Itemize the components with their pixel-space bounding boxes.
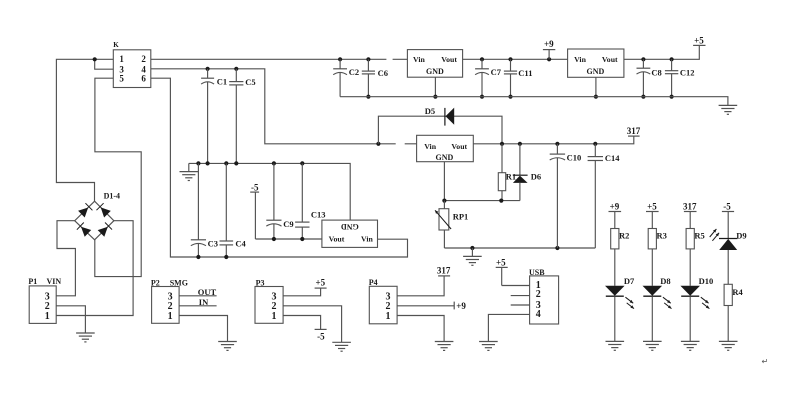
wire USB pin4 to ground [488,314,529,341]
LED D10 [680,276,713,341]
wire P4 pin2 to +9 flag [397,305,454,307]
svg-text:R4: R4 [732,287,743,297]
capacitor C9 [266,163,293,239]
svg-text:Vout: Vout [602,55,618,64]
svg-text:D8: D8 [660,276,670,286]
svg-text:+9: +9 [544,39,554,49]
svg-text:Vin: Vin [361,234,374,243]
connector P2 [151,278,188,323]
wire U1 Vout to U2 Vin (+9 rail) [463,57,568,61]
svg-text:USB: USB [529,268,545,277]
wire mid-bottom rail [444,246,595,250]
svg-text:VIN: VIN [47,277,62,286]
svg-text:↵: ↵ [762,357,769,366]
svg-text:6: 6 [141,73,146,83]
wire P3 pin1 to -5 flag [283,316,321,330]
ground P3 [332,342,351,351]
svg-text:+5: +5 [315,277,325,287]
wire P1 pin3 to bridge left (AC) [56,221,75,296]
connector P3 [255,278,283,323]
svg-text:317: 317 [627,126,641,136]
resistor R5 [686,229,705,286]
capacitor C3 [191,163,218,257]
svg-text:Vout: Vout [451,142,467,151]
diode D5 [425,106,454,126]
wire P2 pin1 to ground [179,316,227,342]
svg-text:C10: C10 [567,153,582,163]
svg-text:2: 2 [536,289,541,300]
svg-text:K: K [113,41,119,49]
connector P4 [369,278,397,324]
svg-text:1: 1 [386,311,391,322]
svg-text:5: 5 [119,73,124,83]
svg-text:Vin: Vin [574,55,587,64]
wire USB pin3 stub [511,304,530,306]
svg-text:P4: P4 [369,278,378,287]
ground D10 branch [681,341,700,350]
wire P3 pin2 to ground [283,306,342,343]
svg-text:OUT: OUT [198,287,217,297]
regulator U3 (LM317) [417,135,474,162]
power flag 317 (LED branch) [683,201,697,228]
svg-text:C3: C3 [208,238,218,248]
svg-text:+5: +5 [694,36,704,46]
svg-text:C13: C13 [311,209,326,219]
power flag +5 (USB) [496,257,508,285]
svg-text:C1: C1 [217,77,227,87]
ground mid left [180,163,199,180]
ground P4 [435,342,454,351]
wire USB pin1 to +5 [502,285,530,287]
ground P1 [76,333,95,342]
wire P3 pin3 to +5 flag [283,288,321,296]
svg-text:C9: C9 [283,219,293,229]
wire P2 pin3 OUT stub [179,287,217,297]
svg-text:C5: C5 [245,77,255,87]
svg-text:GND: GND [587,67,605,76]
svg-text:317: 317 [683,201,697,211]
svg-text:D6: D6 [531,172,541,182]
wire U1 GND pin to rail [433,77,437,99]
svg-text:1: 1 [119,54,124,64]
wire K pin6 / negative rail to U4 Vin [151,78,408,259]
ground USB [479,342,498,351]
resistor R2 [611,229,630,286]
LED D9 [710,229,747,285]
capacitor C13 [295,163,325,239]
ground D7 branch [606,341,625,350]
wire P4 pin3 to 317 flag [397,276,444,296]
power flag +9 (top) [543,39,555,59]
capacitor C1 [201,69,227,164]
ground top right [719,105,738,114]
svg-text:D7: D7 [624,276,635,286]
wire K pin 5 to bridge AC bottom [95,78,141,276]
svg-text:GND: GND [436,153,454,162]
capacitor C2 [333,59,359,96]
capacitor C11 [504,59,533,98]
svg-text:P3: P3 [256,278,265,287]
resistor R4 [724,284,743,341]
wire U3 Vout to 317 flag [473,136,634,146]
capacitor C7 [475,59,502,98]
svg-text:Vout: Vout [329,234,345,243]
wire P2 pin2 IN stub [179,297,217,307]
svg-text:317: 317 [437,265,451,275]
connector P1 [28,277,61,323]
svg-text:+5: +5 [647,201,657,211]
svg-text:-5: -5 [251,182,259,192]
svg-text:4: 4 [536,309,541,320]
potentiometer RP1 [435,201,468,248]
svg-text:2: 2 [141,54,146,64]
wire K pin2 to U1 Vin (+DC rail) [151,57,408,61]
wire K pins 1,3 to bridge AC top [56,57,113,201]
power flag +5 (LED branch) [646,201,659,228]
wire artifact gaps [386,58,404,145]
ground RP1 rail [463,248,482,265]
svg-text:Vin: Vin [413,55,426,64]
wire USB pin2 stub [511,295,530,297]
connector K [113,41,151,88]
regulator U2 (7805) [568,49,624,77]
capacitor C8 [637,59,662,98]
svg-text:D1-4: D1-4 [104,192,120,201]
power flag 317 (P4) [437,265,451,276]
regulator U1 (7809) [407,50,462,78]
svg-text:+9: +9 [456,301,466,311]
wire K pin4 to U3 Vin [151,67,417,146]
wire ADJ node line [442,199,520,203]
svg-text:R2: R2 [619,230,629,240]
svg-text:C4: C4 [235,238,246,248]
wire top ground rail [340,97,728,106]
svg-text:Vin: Vin [424,142,437,151]
wire P4 pin1 to ground [397,316,444,342]
svg-text:1: 1 [45,311,50,322]
resistor R1 [498,144,516,201]
svg-text:C2: C2 [349,67,359,77]
wire U3 ADJ pin [443,162,445,201]
capacitor C6 [362,59,388,98]
svg-text:P2: P2 [151,278,160,287]
wire P1 pin2 to ground [56,306,85,333]
wire U2 Vout to +5 flag [624,45,699,61]
ground P2 [218,342,237,351]
svg-text:IN: IN [199,297,209,307]
svg-text:R1: R1 [506,172,516,182]
power flag +9 (P4, sideways) [454,301,466,311]
capacitor C14 [588,144,621,248]
svg-text:+5: +5 [496,257,506,267]
svg-text:C14: C14 [605,153,620,163]
svg-text:GND: GND [341,222,359,231]
svg-text:1: 1 [272,311,277,322]
svg-text:D10: D10 [699,276,714,286]
svg-text:-5: -5 [723,201,731,211]
svg-text:R3: R3 [657,230,667,240]
power flag +9 (LED branch) [609,201,622,228]
wire D5 bypass net [378,116,502,144]
power flag 317 [627,126,641,136]
svg-text:D9: D9 [736,231,746,241]
svg-text:Vout: Vout [441,55,457,64]
stray return mark [762,357,769,366]
wire -5 line to U4 Vout [255,237,322,241]
power flag +5 (top right) [693,36,705,46]
svg-text:+9: +9 [610,201,620,211]
connector USB [529,268,559,324]
svg-text:D5: D5 [425,106,435,116]
power flag +5 (P3) [315,277,327,288]
svg-text:1: 1 [168,311,173,322]
capacitor C4 [220,163,247,257]
capacitor C12 [665,59,695,98]
capacitor C10 [550,144,582,248]
svg-text:P1: P1 [28,277,37,286]
wire mid ground rail to U4 GND [189,161,350,220]
svg-text:C6: C6 [378,68,388,78]
wire P1 pin1 to bridge right (AC) [56,221,133,316]
capacitor C5 [229,69,255,164]
svg-text:R5: R5 [694,230,704,240]
bridge rectifier D1-4 [75,192,120,240]
LED D7 [605,276,635,341]
resistor R3 [648,229,667,286]
svg-text:RP1: RP1 [453,211,469,221]
svg-text:C7: C7 [491,67,502,77]
LED D8 [643,276,672,341]
svg-text:C11: C11 [518,68,532,78]
power flag -5 (P3) [315,329,327,341]
ground D9 branch [719,341,738,350]
svg-text:C12: C12 [680,67,695,77]
svg-text:SMG: SMG [170,278,188,287]
power flag -5 (mid) [250,182,259,239]
svg-text:GND: GND [426,67,444,76]
wire U2 GND pin to rail [594,77,598,98]
power flag -5 (LED branch) [722,201,734,238]
diode D6 [513,144,541,201]
ground D8 branch [643,341,662,350]
svg-text:C8: C8 [651,67,661,77]
regulator U4 (7905, flipped) [322,220,378,247]
svg-text:-5: -5 [317,332,325,342]
